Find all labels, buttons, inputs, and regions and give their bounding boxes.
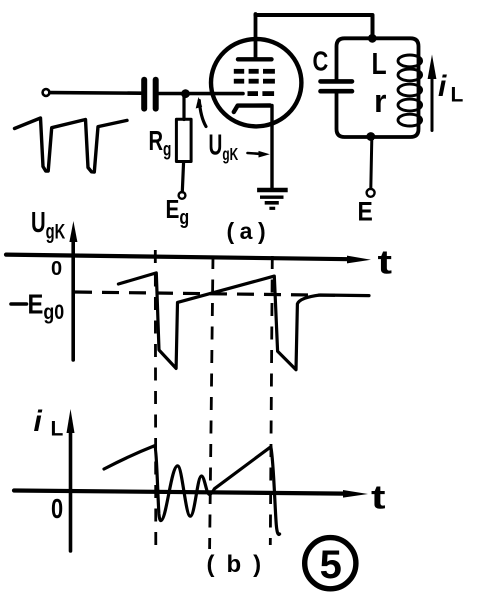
svg-text:L: L	[451, 84, 464, 107]
inductor L coil	[398, 55, 422, 126]
coupling capacitor C1 left plate	[141, 80, 147, 109]
capacitor C top plate	[321, 79, 353, 84]
resistor Rg body	[176, 119, 191, 161]
svg-text:5: 5	[320, 543, 342, 587]
svg-text:i: i	[34, 405, 43, 438]
figure number circle	[305, 538, 356, 589]
junction node grid	[181, 89, 190, 98]
svg-text:E: E	[358, 197, 373, 227]
wire tank bottom to E terminal	[371, 139, 372, 189]
svg-text:(a): (a)	[227, 218, 266, 244]
iL graph t axis	[14, 491, 345, 494]
svg-text:t: t	[371, 479, 386, 516]
node tank bottom	[366, 132, 375, 141]
anode plate	[238, 57, 272, 61]
iL current arrow	[431, 76, 434, 131]
Ugk waveform	[118, 273, 369, 370]
input terminal	[43, 89, 50, 96]
Ugk arrow to cathode	[248, 152, 262, 155]
svg-text:r: r	[374, 83, 386, 119]
svg-text:i: i	[438, 70, 447, 103]
resistor Rg lead top	[182, 96, 185, 120]
terminal Eg	[179, 192, 186, 199]
svg-text:t: t	[378, 244, 393, 281]
svg-text:0: 0	[51, 493, 63, 524]
capacitor C bottom plate	[321, 89, 353, 94]
svg-text:L: L	[372, 46, 387, 80]
grid row 1	[234, 69, 275, 74]
node tank top	[368, 34, 377, 43]
tank circuit outline	[337, 38, 419, 137]
svg-text:0: 0	[51, 258, 62, 280]
grid row 3	[248, 91, 275, 96]
top wire anode to tank	[256, 15, 373, 37]
ground	[257, 190, 288, 208]
Ugk graph t axis	[6, 255, 350, 260]
cathode lead	[270, 106, 273, 190]
minus sign of -Ego	[11, 302, 27, 306]
terminal E	[367, 189, 375, 197]
sawtooth input waveform symbol	[15, 118, 128, 172]
resistor Rg lead bottom	[182, 162, 183, 192]
iL graph vertical axis	[69, 421, 73, 551]
vacuum tube V1 envelope	[211, 39, 301, 126]
grid row 2	[234, 79, 275, 84]
dashed level -Ego	[75, 292, 335, 295]
svg-text:L: L	[51, 418, 64, 441]
dashed timing line 2	[210, 256, 213, 549]
coupling capacitor C1 right plate	[153, 80, 159, 109]
dashed timing line 1	[154, 250, 157, 549]
dashed timing line 3	[270, 256, 272, 545]
wire input to capacitor	[50, 91, 141, 95]
anode lead	[254, 14, 258, 58]
svg-text:C: C	[313, 46, 329, 77]
iL waveform	[104, 446, 280, 535]
cathode	[234, 106, 270, 113]
Ugk curved arrow to grid wire	[199, 101, 206, 127]
wire capacitor to grid	[159, 92, 243, 96]
Ugk graph vertical axis	[71, 234, 75, 360]
